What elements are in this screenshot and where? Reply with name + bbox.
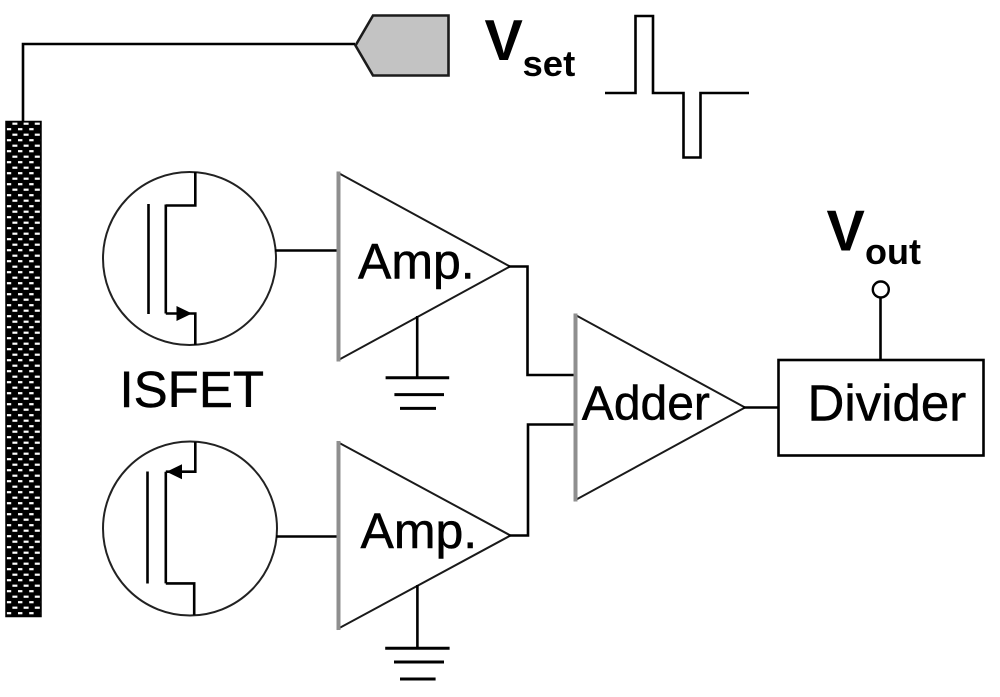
wire Amp1 output to Adder input [508,267,576,376]
wire from reference electrode to solution bar [23,44,355,122]
source lead [166,583,194,615]
svg-text:V: V [827,200,865,264]
gate bar [147,204,150,314]
svg-text:Adder: Adder [582,378,710,431]
svg-text:ISFET: ISFET [120,361,265,418]
adder U3 [576,314,746,502]
svg-text:set: set [523,43,576,84]
amplifier A1 (top Amp) [339,172,511,362]
svg-text:Amp.: Amp. [358,234,475,290]
svg-text:V: V [485,9,523,73]
arrow on source [177,306,193,321]
solution bar (electrode in solution) [6,122,41,617]
wire Adder output to Divider [743,406,779,409]
channel bar [165,472,168,584]
wire Divider to Vout terminal [879,297,882,360]
Vout terminal [873,282,889,298]
channel bar [165,205,168,314]
svg-text:out: out [865,231,921,272]
arrow on drain [167,464,183,479]
ground for A2 [385,585,449,679]
svg-text:Amp.: Amp. [361,503,478,559]
gate bar [146,472,149,584]
ground for A1 [386,316,450,408]
wire Amp2 output to Adder input [509,425,576,536]
output wire to Amp2 [276,535,339,538]
gray input edge [574,314,578,502]
gray input edge [337,441,341,630]
ISFET Q2 (bottom) [103,442,339,616]
Vset pulse waveform [605,16,749,158]
svg-text:Divider: Divider [808,375,967,432]
divider U4 [779,360,984,456]
source lead [166,314,196,346]
drain lead [166,172,196,206]
amplifier A2 (bottom Amp) [339,441,511,630]
drain lead [166,442,196,472]
output wire to Amp1 [275,249,339,252]
ISFET Q1 (top) [103,172,339,345]
reference electrode (Vset probe) [356,16,449,76]
gray input edge [337,172,341,362]
